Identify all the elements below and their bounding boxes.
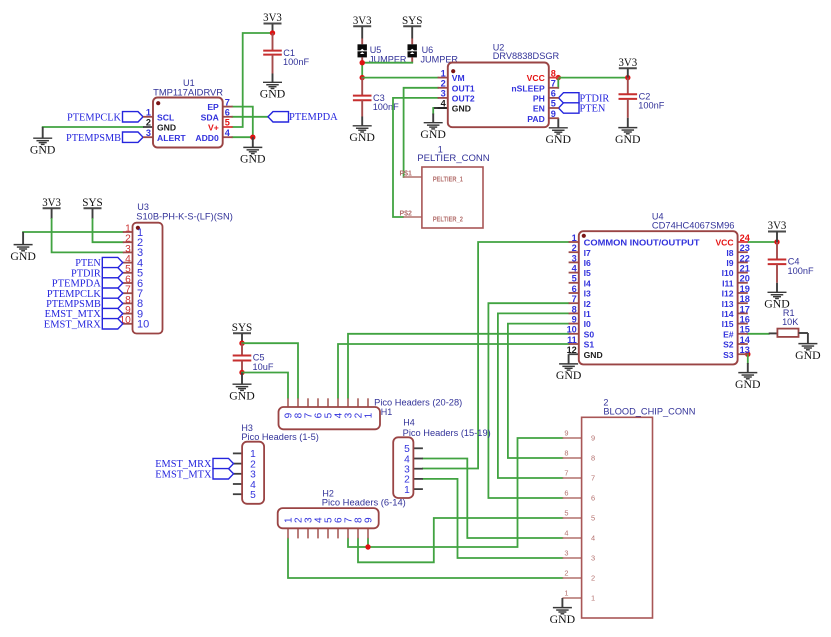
svg-text:PTEMPSMB: PTEMPSMB xyxy=(66,132,121,144)
svg-text:OUT2: OUT2 xyxy=(452,94,475,104)
svg-text:EMST_MRX: EMST_MRX xyxy=(44,318,101,330)
svg-text:GND: GND xyxy=(556,370,582,382)
svg-text:1: 1 xyxy=(564,588,568,597)
svg-text:GND: GND xyxy=(240,154,266,166)
svg-text:S2: S2 xyxy=(723,340,734,350)
svg-text:I8: I8 xyxy=(726,248,733,258)
svg-text:3V3: 3V3 xyxy=(768,220,787,232)
svg-text:18: 18 xyxy=(740,294,750,304)
svg-text:S1: S1 xyxy=(584,340,595,350)
svg-text:5: 5 xyxy=(572,274,577,284)
svg-text:VM: VM xyxy=(452,73,465,83)
svg-text:5: 5 xyxy=(225,118,230,128)
svg-text:14: 14 xyxy=(740,335,751,345)
svg-text:15: 15 xyxy=(740,325,750,335)
svg-text:4: 4 xyxy=(225,128,231,138)
svg-text:GND: GND xyxy=(546,134,572,146)
svg-text:nSLEEP: nSLEEP xyxy=(511,83,545,93)
svg-text:P$2: P$2 xyxy=(400,210,413,217)
svg-text:8: 8 xyxy=(551,68,556,78)
svg-text:2: 2 xyxy=(591,574,595,583)
svg-text:6: 6 xyxy=(591,494,595,503)
svg-text:I9: I9 xyxy=(726,258,733,268)
svg-text:1: 1 xyxy=(363,412,374,418)
svg-text:6: 6 xyxy=(225,108,230,118)
svg-text:5: 5 xyxy=(250,490,256,501)
svg-text:9: 9 xyxy=(591,434,595,443)
svg-text:GND: GND xyxy=(229,391,255,403)
svg-text:GND: GND xyxy=(452,104,471,114)
svg-text:10: 10 xyxy=(567,325,577,335)
svg-text:4: 4 xyxy=(441,99,447,109)
svg-text:17: 17 xyxy=(740,304,750,314)
svg-text:7: 7 xyxy=(591,474,595,483)
svg-text:11: 11 xyxy=(567,335,577,345)
svg-text:4: 4 xyxy=(564,528,568,537)
svg-text:1: 1 xyxy=(404,485,410,496)
svg-text:I3: I3 xyxy=(584,289,591,299)
svg-text:6: 6 xyxy=(551,89,556,99)
svg-text:7: 7 xyxy=(225,97,230,107)
svg-text:2: 2 xyxy=(146,118,151,128)
svg-text:2: 2 xyxy=(441,79,446,89)
svg-text:GND: GND xyxy=(735,379,761,391)
svg-text:8: 8 xyxy=(572,304,577,314)
svg-text:5: 5 xyxy=(564,508,568,517)
svg-text:20: 20 xyxy=(740,274,750,284)
svg-text:GND: GND xyxy=(10,251,35,263)
svg-text:GND: GND xyxy=(615,134,641,146)
svg-text:5: 5 xyxy=(551,99,556,109)
svg-text:PELTIER_1: PELTIER_1 xyxy=(433,176,463,183)
svg-text:I5: I5 xyxy=(584,268,591,278)
svg-text:I10: I10 xyxy=(722,268,734,278)
svg-text:PTEMPCLK: PTEMPCLK xyxy=(67,111,121,123)
svg-text:9: 9 xyxy=(564,428,568,437)
svg-text:13: 13 xyxy=(740,345,750,355)
svg-text:GND: GND xyxy=(420,129,446,141)
svg-text:24: 24 xyxy=(740,233,751,243)
svg-text:6: 6 xyxy=(564,488,568,497)
svg-text:100nF: 100nF xyxy=(373,102,399,112)
svg-text:100nF: 100nF xyxy=(638,101,664,111)
svg-text:12: 12 xyxy=(567,345,577,355)
svg-text:Pico Headers (15-19): Pico Headers (15-19) xyxy=(403,428,491,438)
svg-text:V+: V+ xyxy=(208,123,219,133)
svg-text:SYS: SYS xyxy=(402,15,423,27)
svg-text:GND: GND xyxy=(795,350,821,362)
svg-text:100nF: 100nF xyxy=(283,57,309,67)
svg-text:19: 19 xyxy=(740,284,750,294)
svg-text:I11: I11 xyxy=(722,278,734,288)
svg-text:SDA: SDA xyxy=(201,112,219,122)
svg-text:8: 8 xyxy=(564,448,568,457)
svg-text:22: 22 xyxy=(740,253,750,263)
svg-text:CD74HC4067SM96: CD74HC4067SM96 xyxy=(652,220,735,231)
svg-text:Pico Headers (6-14): Pico Headers (6-14) xyxy=(322,497,406,507)
svg-text:3V3: 3V3 xyxy=(42,197,61,209)
svg-text:3: 3 xyxy=(146,128,151,138)
svg-text:3: 3 xyxy=(572,253,577,263)
svg-text:GND: GND xyxy=(30,145,56,157)
svg-text:S3: S3 xyxy=(723,350,734,360)
svg-text:COMMON INOUT/OUTPUT: COMMON INOUT/OUTPUT xyxy=(584,238,701,248)
svg-text:I1: I1 xyxy=(584,309,591,319)
svg-text:I2: I2 xyxy=(584,299,591,309)
svg-text:100nF: 100nF xyxy=(788,266,814,276)
svg-text:9: 9 xyxy=(572,315,577,325)
svg-text:I12: I12 xyxy=(722,289,734,299)
svg-text:7: 7 xyxy=(564,468,568,477)
svg-text:16: 16 xyxy=(740,315,750,325)
svg-text:1: 1 xyxy=(572,233,577,243)
svg-text:PAD: PAD xyxy=(527,114,545,124)
svg-text:5: 5 xyxy=(591,514,595,523)
svg-text:ALERT: ALERT xyxy=(157,133,186,143)
svg-text:P$1: P$1 xyxy=(400,170,413,177)
svg-text:SYS: SYS xyxy=(232,322,253,334)
svg-text:1: 1 xyxy=(591,594,595,603)
svg-text:PTEN: PTEN xyxy=(580,102,606,114)
svg-text:PH: PH xyxy=(533,94,545,104)
svg-text:GND: GND xyxy=(550,614,576,626)
svg-text:PELTIER_2: PELTIER_2 xyxy=(433,216,463,223)
svg-text:3: 3 xyxy=(564,548,568,557)
svg-text:EN: EN xyxy=(533,104,545,114)
svg-text:2: 2 xyxy=(564,568,568,577)
svg-text:OUT1: OUT1 xyxy=(452,83,475,93)
svg-text:I15: I15 xyxy=(722,319,734,329)
svg-text:VCC: VCC xyxy=(715,238,733,248)
svg-text:I6: I6 xyxy=(584,258,591,268)
svg-text:EP: EP xyxy=(207,102,219,112)
svg-text:PELTIER_CONN: PELTIER_CONN xyxy=(417,152,490,163)
svg-text:I0: I0 xyxy=(584,319,591,329)
svg-text:9: 9 xyxy=(363,517,374,523)
svg-text:DRV8838DSGR: DRV8838DSGR xyxy=(493,50,560,61)
svg-text:3V3: 3V3 xyxy=(263,12,282,24)
svg-text:10: 10 xyxy=(137,319,149,331)
svg-text:H1: H1 xyxy=(381,407,393,417)
svg-text:4: 4 xyxy=(591,534,595,543)
svg-text:BLOOD_CHIP_CONN: BLOOD_CHIP_CONN xyxy=(603,405,695,416)
svg-text:1: 1 xyxy=(441,68,446,78)
svg-text:H4: H4 xyxy=(403,418,415,428)
svg-text:TMP117AIDRVR: TMP117AIDRVR xyxy=(153,86,223,97)
svg-text:I14: I14 xyxy=(722,309,734,319)
svg-text:10uF: 10uF xyxy=(253,362,274,372)
svg-text:21: 21 xyxy=(740,264,750,274)
svg-text:GND: GND xyxy=(157,123,176,133)
svg-text:3V3: 3V3 xyxy=(618,57,637,69)
svg-text:10K: 10K xyxy=(782,317,798,327)
svg-text:23: 23 xyxy=(740,243,750,253)
svg-text:ADD0: ADD0 xyxy=(195,133,219,143)
svg-text:E#: E# xyxy=(723,329,734,339)
svg-text:3V3: 3V3 xyxy=(353,15,372,27)
svg-text:EMST_MTX: EMST_MTX xyxy=(155,468,211,480)
svg-text:8: 8 xyxy=(591,454,595,463)
svg-text:PTEMPDA: PTEMPDA xyxy=(289,111,338,123)
svg-text:GND: GND xyxy=(584,350,603,360)
svg-text:7: 7 xyxy=(551,79,556,89)
svg-text:VCC: VCC xyxy=(527,73,545,83)
svg-text:9: 9 xyxy=(551,109,556,119)
svg-text:GND: GND xyxy=(260,89,286,101)
svg-text:4: 4 xyxy=(572,264,578,274)
svg-text:GND: GND xyxy=(349,132,375,144)
svg-text:2: 2 xyxy=(572,243,577,253)
svg-text:1: 1 xyxy=(146,108,151,118)
svg-text:S0: S0 xyxy=(584,329,595,339)
svg-text:3: 3 xyxy=(441,89,446,99)
svg-text:I4: I4 xyxy=(584,278,591,288)
svg-text:Pico Headers (1-5): Pico Headers (1-5) xyxy=(241,432,318,442)
svg-text:I7: I7 xyxy=(584,248,591,258)
svg-text:6: 6 xyxy=(572,284,577,294)
svg-text:3: 3 xyxy=(591,554,595,563)
svg-text:7: 7 xyxy=(572,294,577,304)
svg-text:I13: I13 xyxy=(722,299,734,309)
svg-text:SYS: SYS xyxy=(82,197,103,209)
svg-text:S10B-PH-K-S-(LF)(SN): S10B-PH-K-S-(LF)(SN) xyxy=(136,211,233,222)
svg-text:SCL: SCL xyxy=(157,112,174,122)
